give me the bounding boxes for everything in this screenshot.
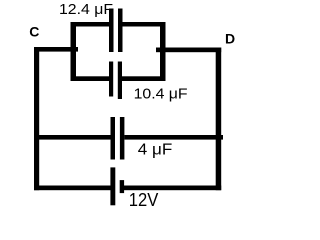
node D	[225, 30, 235, 46]
svg-text:12.4 μF: 12.4 μF	[59, 1, 113, 18]
wire bottom branch right segment	[124, 186, 221, 191]
wire right outer vertical	[216, 48, 222, 191]
svg-text:10.4 μF: 10.4 μF	[134, 86, 188, 103]
value label 10.4 uF	[134, 86, 188, 103]
wire from node C to parallel branch (top left horizontal)	[34, 47, 78, 52]
capacitor C2 10.4 uF	[109, 62, 122, 100]
value label 12V	[129, 190, 159, 210]
value label 4 uF	[138, 141, 173, 158]
wire middle branch right segment	[124, 135, 223, 140]
value label 12.4 uF	[59, 1, 113, 18]
wire left outer vertical	[34, 47, 39, 190]
battery V1 12V	[110, 167, 124, 205]
svg-text:4 μF: 4 μF	[138, 141, 173, 158]
wire top rail left segment	[71, 22, 110, 27]
wire parallel-branch right vertical	[160, 22, 166, 81]
capacitor C1 12.4 uF	[109, 9, 123, 53]
capacitor C3 4 uF	[111, 117, 125, 160]
wire bottom rail right segment	[122, 76, 166, 81]
wire bottom rail left segment	[71, 76, 110, 81]
wire middle branch left segment	[34, 135, 111, 140]
svg-text:C: C	[29, 24, 39, 40]
wire bottom branch left segment	[34, 186, 111, 191]
node C	[29, 24, 39, 40]
svg-text:D: D	[225, 30, 235, 46]
wire parallel-branch left vertical	[71, 22, 77, 81]
wire top rail right segment	[123, 22, 166, 27]
svg-text:12V: 12V	[129, 190, 159, 210]
wire from parallel branch to node D (top right horizontal)	[156, 48, 221, 53]
